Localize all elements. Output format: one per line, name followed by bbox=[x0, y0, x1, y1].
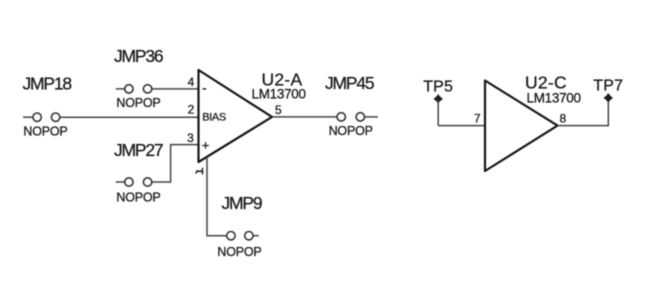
svg-text:NOPOP: NOPOP bbox=[329, 124, 373, 138]
op-amp U2-A body bbox=[199, 70, 273, 162]
jumper JMP9 pad 2 bbox=[245, 232, 253, 240]
svg-text:NOPOP: NOPOP bbox=[116, 96, 160, 110]
svg-text:JMP27: JMP27 bbox=[114, 140, 163, 160]
svg-text:U2-C: U2-C bbox=[525, 72, 567, 92]
svg-text:LM13700: LM13700 bbox=[527, 91, 581, 106]
svg-text:7: 7 bbox=[474, 112, 481, 126]
svg-text:LM13700: LM13700 bbox=[252, 87, 306, 102]
jumper JMP9 pad 1 bbox=[227, 232, 235, 240]
wire JMP36 to pin 4 bbox=[152, 88, 199, 90]
jumper JMP18 pad 2 bbox=[51, 113, 59, 121]
svg-text:NOPOP: NOPOP bbox=[23, 125, 67, 139]
svg-text:NOPOP: NOPOP bbox=[217, 245, 261, 259]
test point TP5 marker bbox=[434, 94, 443, 103]
svg-text:4: 4 bbox=[188, 75, 195, 89]
jumper JMP36 pad 2 bbox=[143, 85, 151, 93]
svg-text:3: 3 bbox=[187, 131, 194, 145]
wire TP7 vertical bbox=[607, 99, 609, 126]
wire pin 1 vertical bbox=[206, 157, 208, 236]
svg-text:JMP9: JMP9 bbox=[222, 193, 262, 213]
jumper JMP45 pad 2 bbox=[356, 113, 364, 121]
wire to pin 3 bbox=[171, 144, 199, 146]
wire pin 8 output bbox=[558, 125, 609, 127]
wire TP5 vertical bbox=[437, 100, 439, 126]
svg-text:8: 8 bbox=[560, 112, 567, 126]
svg-text:TP5: TP5 bbox=[423, 79, 453, 96]
svg-text:BIAS: BIAS bbox=[202, 112, 226, 124]
svg-text:NOPOP: NOPOP bbox=[116, 191, 160, 205]
wire JMP18 to pin 2 bbox=[60, 116, 199, 118]
svg-text:JMP18: JMP18 bbox=[23, 74, 72, 94]
test point TP7 marker bbox=[604, 93, 613, 102]
jumper JMP45 pad 1 bbox=[337, 113, 345, 121]
svg-text:-: - bbox=[202, 80, 207, 96]
wire JMP9 right stub bbox=[253, 235, 258, 237]
svg-text:5: 5 bbox=[275, 103, 282, 117]
svg-text:TP7: TP7 bbox=[593, 78, 623, 95]
wire pin 5 output bbox=[272, 116, 337, 118]
jumper JMP27 pad 2 bbox=[143, 178, 151, 186]
wire corner vertical bbox=[170, 144, 172, 183]
jumper JMP18 pad 1 bbox=[33, 113, 41, 121]
svg-text:+: + bbox=[202, 137, 210, 152]
jumper JMP36 pad 1 bbox=[125, 85, 133, 93]
wire JMP36 left stub bbox=[116, 88, 125, 90]
wire JMP27 to corner bbox=[152, 181, 171, 183]
pin 1 number (rotated) bbox=[196, 168, 203, 175]
wire JMP45 right stub bbox=[365, 116, 378, 118]
svg-text:JMP45: JMP45 bbox=[325, 73, 374, 93]
wire pin 1 horizontal to JMP9 bbox=[206, 235, 226, 237]
op-amp U2-C body bbox=[485, 81, 558, 172]
svg-text:JMP36: JMP36 bbox=[114, 46, 163, 66]
jumper JMP27 pad 1 bbox=[125, 178, 133, 186]
svg-text:2: 2 bbox=[188, 103, 195, 117]
wire JMP18 left stub bbox=[23, 116, 33, 118]
wire TP5 to pin 7 bbox=[438, 125, 485, 127]
wire JMP27 left stub bbox=[116, 181, 125, 183]
